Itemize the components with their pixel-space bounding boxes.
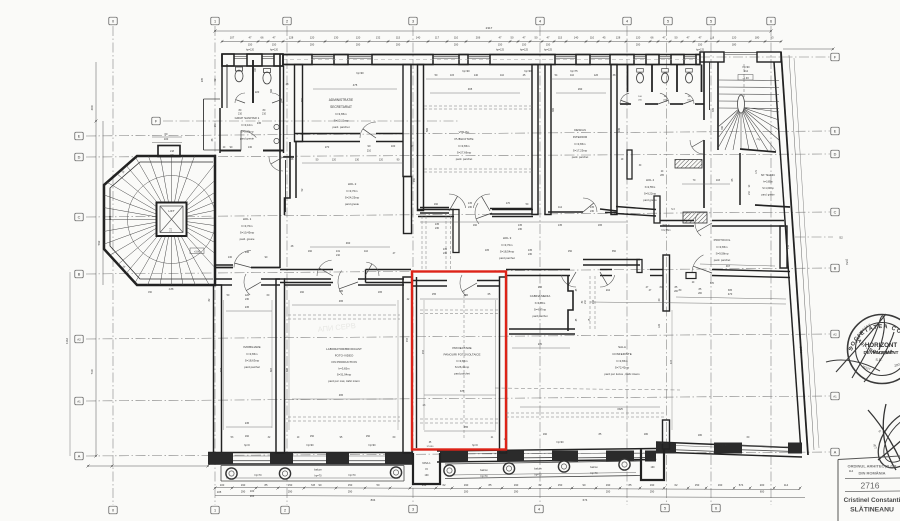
svg-text:235: 235 <box>201 77 204 82</box>
cabina media bottom wall <box>509 328 575 330</box>
svg-text:132: 132 <box>376 36 381 40</box>
svg-text:C: C <box>78 215 81 219</box>
svg-text:470: 470 <box>728 292 733 296</box>
svg-text:400: 400 <box>90 105 94 110</box>
svg-text:0: 0 <box>112 19 114 23</box>
svg-text:hp=125: hp=125 <box>496 49 505 52</box>
svg-text:112: 112 <box>558 206 563 209</box>
svg-text:A1: A1 <box>77 399 81 403</box>
svg-text:hp=70: hp=70 <box>590 472 598 475</box>
svg-text:140: 140 <box>474 74 479 77</box>
svg-text:270: 270 <box>325 145 330 149</box>
wall: bottom exterior band right section <box>656 442 802 448</box>
wall: top windows thin lines <box>312 55 334 57</box>
toilet wc fixtures top right <box>637 73 644 83</box>
svg-text:230: 230 <box>468 206 473 209</box>
hol 2 right wall x407 <box>404 177 412 234</box>
svg-text:160: 160 <box>300 291 305 294</box>
svg-text:180: 180 <box>644 433 649 436</box>
left axis letter markers <box>75 132 83 140</box>
svg-text:150: 150 <box>498 43 503 47</box>
svg-text:47: 47 <box>273 36 276 40</box>
svg-text:SLĂTINEANU: SLĂTINEANU <box>850 505 894 514</box>
svg-text:h=3,65m: h=3,65m <box>459 144 471 148</box>
svg-text:Cristinel Constantin: Cristinel Constantin <box>844 497 900 504</box>
svg-text:5: 5 <box>667 19 669 23</box>
svg-text:pard. gresie: pard. gresie <box>240 237 255 241</box>
svg-text:465: 465 <box>339 300 344 303</box>
title block frame <box>838 456 900 460</box>
nisa 1 box right <box>641 449 664 480</box>
svg-text:S=31,94mp: S=31,94mp <box>337 373 352 377</box>
grup sanitar stall partition <box>252 60 254 103</box>
svg-text:h=3,70m: h=3,70m <box>242 224 254 228</box>
svg-text:190: 190 <box>464 483 469 487</box>
svg-text:150: 150 <box>558 483 563 487</box>
svg-text:210: 210 <box>262 113 267 116</box>
stair tower radial treads <box>172 220 210 286</box>
svg-text:135: 135 <box>558 224 563 227</box>
svg-text:+1.93: +1.93 <box>742 77 749 80</box>
svg-text:ORDINUL ARHITECȚILOR: ORDINUL ARHITECȚILOR <box>848 464 897 469</box>
svg-text:62: 62 <box>539 483 542 487</box>
svg-text:165: 165 <box>598 224 603 227</box>
design interior left wall <box>545 65 551 215</box>
svg-text:728: 728 <box>311 484 316 487</box>
hol 1 bottom wall <box>215 267 233 269</box>
svg-text:66: 66 <box>261 36 264 40</box>
tower top landing box <box>158 146 180 157</box>
grup sanitar bottom wall and door <box>220 150 241 152</box>
svg-text:230: 230 <box>443 252 448 255</box>
wall: left exterior of lower-left block <box>214 285 222 456</box>
svg-text:hp=120: hp=120 <box>270 49 279 52</box>
stair center dashed walk line <box>743 64 745 100</box>
interior vertical dim lines lower rooms <box>223 300 225 430</box>
svg-text:170: 170 <box>506 202 511 205</box>
svg-text:160: 160 <box>718 483 723 487</box>
laborator dashed ceiling bands <box>288 314 400 316</box>
red marking rectangle <box>412 272 506 450</box>
sp tehnic room walls <box>739 153 741 205</box>
svg-text:47: 47 <box>523 36 526 40</box>
svg-text:S2: S2 <box>839 236 843 240</box>
svg-text:150: 150 <box>522 43 527 47</box>
svg-text:190: 190 <box>650 483 655 487</box>
svg-text:pard. parchet: pard. parchet <box>714 258 731 262</box>
svg-text:h=3,65m: h=3,65m <box>339 367 351 371</box>
svg-text:290: 290 <box>514 490 519 494</box>
svg-text:370/90: 370/90 <box>427 446 434 448</box>
svg-text:100: 100 <box>164 137 169 141</box>
svg-text:150: 150 <box>248 43 253 47</box>
svg-text:390: 390 <box>552 107 555 112</box>
svg-text:155: 155 <box>432 293 437 296</box>
stair treads radial fan <box>741 107 779 112</box>
svg-text:135: 135 <box>339 290 344 293</box>
administratie right wall x405 <box>403 65 411 177</box>
top axis markers 0-6 <box>109 17 117 25</box>
svg-text:NISA 1: NISA 1 <box>422 461 431 465</box>
svg-text:h=3,65m: h=3,65m <box>335 112 347 116</box>
stair top right left wall <box>717 62 719 150</box>
svg-text:110: 110 <box>170 227 173 231</box>
svg-text:804: 804 <box>371 498 376 502</box>
svg-text:+3.80: +3.80 <box>194 250 201 253</box>
svg-text:160: 160 <box>245 435 250 438</box>
svg-text:hp=90: hp=90 <box>462 69 470 73</box>
administratie bottom wall with door <box>294 133 360 135</box>
svg-text:230: 230 <box>590 210 595 213</box>
svg-text:130: 130 <box>248 146 253 149</box>
laborator top wall with door <box>284 278 331 280</box>
svg-text:110: 110 <box>570 74 575 77</box>
svg-text:160: 160 <box>308 250 313 253</box>
svg-text:140: 140 <box>416 36 421 40</box>
svg-text:667: 667 <box>270 367 273 372</box>
toilet block lower wall with doors <box>620 103 631 105</box>
svg-text:h=3,85m: h=3,85m <box>535 301 546 305</box>
svg-text:128: 128 <box>616 36 621 40</box>
svg-text:600: 600 <box>760 490 765 494</box>
svg-text:465: 465 <box>468 87 473 91</box>
svg-text:592: 592 <box>97 240 101 245</box>
design interior bottom wall <box>548 211 583 213</box>
wall: bottom exterior band mid section <box>437 449 656 452</box>
svg-text:balcon: balcon <box>590 465 598 469</box>
svg-text:126: 126 <box>594 74 599 77</box>
svg-text:4: 4 <box>538 507 540 511</box>
svg-text:350: 350 <box>612 250 617 253</box>
stair tower inner winding line <box>128 176 216 264</box>
svg-text:135: 135 <box>528 249 533 252</box>
svg-text:0: 0 <box>112 508 114 512</box>
protocol right wall <box>780 226 787 268</box>
svg-text:50: 50 <box>377 483 380 487</box>
svg-text:S=9,58mp: S=9,58mp <box>716 252 729 256</box>
svg-text:212: 212 <box>744 70 749 73</box>
svg-text:D: D <box>78 155 81 159</box>
visual publicitate left wall <box>418 65 424 211</box>
balcony right columns <box>444 465 455 476</box>
svg-text:C: C <box>834 210 837 214</box>
svg-text:290: 290 <box>241 490 246 494</box>
title block rule 2 <box>845 490 900 493</box>
svg-text:hp=70: hp=70 <box>254 474 262 477</box>
bottom left small dimension line <box>88 465 208 467</box>
svg-text:135: 135 <box>518 224 523 227</box>
wall between corridor and administratie x299 <box>295 65 303 142</box>
svg-text:h=3,65m: h=3,65m <box>575 142 587 146</box>
svg-text:114: 114 <box>784 483 789 487</box>
wall: bottom exterior band left section <box>208 452 413 454</box>
svg-text:balcon: balcon <box>534 467 542 471</box>
svg-text:150: 150 <box>272 43 277 47</box>
stair treads horizontal flight full width <box>718 79 779 81</box>
stair top right bottom wall <box>740 149 776 152</box>
svg-text:117: 117 <box>435 36 440 40</box>
top overall dimension line 2317 <box>215 30 771 32</box>
svg-text:50: 50 <box>511 36 514 40</box>
svg-text:pard gresie: pard gresie <box>345 202 359 206</box>
svg-text:VISUAL: VISUAL <box>459 130 470 134</box>
svg-text:hp=90: hp=90 <box>524 69 532 73</box>
svg-text:130: 130 <box>355 159 360 162</box>
svg-text:HOL 3: HOL 3 <box>503 236 512 240</box>
nisa 1 box left <box>413 453 440 484</box>
svg-text:290: 290 <box>348 490 353 494</box>
svg-text:h=3,70m: h=3,70m <box>502 243 514 247</box>
svg-text:180: 180 <box>755 36 760 40</box>
signature strokes over stamp <box>836 314 894 382</box>
svg-text:hp=125: hp=125 <box>696 49 705 52</box>
svg-text:2051: 2051 <box>845 259 849 266</box>
corridor lower wall right of red zone <box>506 269 570 271</box>
svg-text:200: 200 <box>636 43 641 47</box>
corridor lower wall band segments <box>280 269 333 271</box>
svg-text:h=3,65m: h=3,65m <box>717 245 729 249</box>
svg-text:120: 120 <box>356 36 361 40</box>
level marker box +3.80 <box>190 248 204 254</box>
svg-text:100: 100 <box>391 144 396 148</box>
svg-text:180: 180 <box>698 434 703 437</box>
svg-text:47: 47 <box>499 36 502 40</box>
svg-text:D: D <box>834 152 837 156</box>
svg-text:A1: A1 <box>833 394 837 398</box>
svg-text:200: 200 <box>606 490 611 494</box>
svg-text:190: 190 <box>651 466 656 469</box>
svg-text:HOL 2: HOL 2 <box>348 182 357 186</box>
svg-text:165: 165 <box>378 291 383 294</box>
svg-text:SP. TEHNIC: SP. TEHNIC <box>761 173 775 177</box>
svg-text:ADMINISTRATIE: ADMINISTRATIE <box>329 98 353 102</box>
wall: top-right raised band near stair <box>700 52 724 62</box>
svg-text:SALA: SALA <box>618 345 626 349</box>
imobiliare right wall band <box>276 279 285 453</box>
svg-text:350: 350 <box>413 177 416 182</box>
svg-text:HOL 1: HOL 1 <box>243 217 252 221</box>
svg-text:205: 205 <box>618 127 621 132</box>
visual publicitate bottom wall and double door <box>420 207 449 209</box>
vertical grid axes dash-dot <box>112 26 114 505</box>
svg-text:6: 6 <box>715 506 717 510</box>
svg-text:210: 210 <box>336 254 341 257</box>
svg-text:1: 1 <box>214 19 216 23</box>
svg-text:290: 290 <box>578 87 583 91</box>
hol 2 left wall jog <box>285 142 291 215</box>
svg-text:210: 210 <box>787 244 790 249</box>
svg-text:230: 230 <box>518 228 523 231</box>
svg-text:GRUP SANITAR 1: GRUP SANITAR 1 <box>235 116 260 120</box>
svg-text:2716: 2716 <box>861 481 880 491</box>
svg-text:130: 130 <box>334 36 339 40</box>
right slant dimension lines <box>789 55 814 450</box>
bottom dimension chain lines <box>215 488 800 490</box>
svg-text:90: 90 <box>319 483 322 487</box>
corridor lower wall left of imobiliare <box>215 264 233 266</box>
svg-text:5: 5 <box>664 506 666 510</box>
left dimension lines <box>95 62 97 456</box>
svg-text:h=3,65m: h=3,65m <box>457 359 469 363</box>
svg-text:160: 160 <box>473 224 478 227</box>
svg-text:NISA 1: NISA 1 <box>648 457 657 461</box>
svg-text:PROTOCOL: PROTOCOL <box>714 238 731 242</box>
svg-text:190: 190 <box>425 474 430 477</box>
svg-text:pard. parchet: pard. parchet <box>572 155 589 159</box>
svg-text:4.88: 4.88 <box>169 288 174 291</box>
grup sanitar left step wall face <box>203 99 205 150</box>
svg-text:218: 218 <box>170 150 175 153</box>
svg-text:135: 135 <box>590 206 595 209</box>
title block rule 1 <box>845 477 900 480</box>
svg-text:150: 150 <box>288 483 293 487</box>
corridor door into hol 1 <box>283 156 294 158</box>
svg-text:DEVELOPMENT: DEVELOPMENT <box>864 350 899 355</box>
svg-text:110: 110 <box>500 74 505 77</box>
svg-text:PUBLICITATE: PUBLICITATE <box>455 137 474 141</box>
svg-text:460: 460 <box>346 241 351 245</box>
svg-text:hp=90: hp=90 <box>720 444 728 447</box>
svg-text:140: 140 <box>574 36 579 40</box>
svg-text:LABORATOR/BRODCAST: LABORATOR/BRODCAST <box>326 347 362 351</box>
sinks on right wall <box>274 124 279 129</box>
toilet block partitions <box>627 65 629 93</box>
svg-text:131: 131 <box>336 250 341 253</box>
svg-text:S=12.11mp: S=12.11mp <box>334 119 349 123</box>
hol2-hol3 wall y213 segments <box>418 209 454 211</box>
svg-text:107: 107 <box>230 36 235 40</box>
hol2 left wall second face <box>295 142 297 198</box>
balcony left columns <box>226 468 237 479</box>
visual dashed ceiling lines <box>424 105 532 107</box>
svg-text:45: 45 <box>603 36 606 40</box>
svg-text:h=3,70m: h=3,70m <box>347 189 359 193</box>
svg-text:120: 120 <box>658 323 661 328</box>
svg-text:230: 230 <box>528 253 533 256</box>
svg-text:hp=90: hp=90 <box>368 444 376 447</box>
svg-text:E: E <box>78 134 81 138</box>
svg-text:pard. parchet: pard. parchet <box>332 125 349 129</box>
svg-text:h=2,55m: h=2,55m <box>645 185 656 189</box>
balcony left outline <box>221 465 404 467</box>
svg-text:DIN ROMÂNIA: DIN ROMÂNIA <box>858 471 885 476</box>
grup sanitar 1 outer walls <box>221 54 223 108</box>
svg-text:135: 135 <box>435 223 440 226</box>
svg-text:62: 62 <box>675 483 678 487</box>
visual publicitate right wall <box>532 65 538 215</box>
svg-text:85: 85 <box>265 483 268 487</box>
svg-text:93: 93 <box>771 36 774 40</box>
svg-text:150: 150 <box>214 122 217 127</box>
svg-text:2: 2 <box>284 508 286 512</box>
svg-text:180: 180 <box>732 43 737 47</box>
svg-text:120: 120 <box>636 36 641 40</box>
svg-text:ON PRODUCTION: ON PRODUCTION <box>331 360 357 364</box>
svg-text:pard. gresie: pard. gresie <box>761 194 775 197</box>
svg-text:hp=0: hp=0 <box>244 444 250 447</box>
svg-text:h=3,10m: h=3,10m <box>242 123 254 127</box>
svg-text:190: 190 <box>241 483 246 487</box>
svg-text:120: 120 <box>732 36 737 40</box>
svg-text:4: 4 <box>626 19 628 23</box>
svg-text:250: 250 <box>301 97 304 102</box>
svg-text:3: 3 <box>412 507 414 511</box>
svg-text:145: 145 <box>245 251 250 254</box>
svg-text:50: 50 <box>535 36 538 40</box>
faint stamp bleed watermark <box>317 321 356 334</box>
sala dashed ceiling band <box>506 412 664 414</box>
svg-text:100: 100 <box>220 483 225 487</box>
svg-text:hp=70: hp=70 <box>480 475 488 478</box>
svg-text:378: 378 <box>460 390 465 393</box>
svg-text:hp=90: hp=90 <box>306 444 314 447</box>
svg-text:62: 62 <box>443 483 446 487</box>
svg-text:457: 457 <box>406 337 409 342</box>
svg-text:hp=70: hp=70 <box>348 474 356 477</box>
svg-text:160: 160 <box>543 433 548 436</box>
svg-text:190: 190 <box>514 483 519 487</box>
svg-text:730: 730 <box>90 369 94 374</box>
svg-text:S=18,63mp: S=18,63mp <box>245 359 260 363</box>
design interior right wall <box>611 65 617 215</box>
svg-text:FOTO-VIDEO: FOTO-VIDEO <box>335 354 354 358</box>
svg-text:200: 200 <box>464 490 469 494</box>
svg-text:IMOBILIARE: IMOBILIARE <box>243 345 260 349</box>
svg-text:hp=0: hp=0 <box>472 444 478 447</box>
svg-text:1525: 1525 <box>617 408 623 411</box>
svg-text:200: 200 <box>760 483 765 487</box>
svg-text:447: 447 <box>670 359 673 364</box>
svg-text:110: 110 <box>364 250 369 253</box>
svg-text:66: 66 <box>651 36 654 40</box>
svg-text:150: 150 <box>310 435 315 438</box>
svg-text:105: 105 <box>217 490 222 494</box>
svg-text:290: 290 <box>650 490 655 494</box>
hol 1 / corridor vertical wall x282 <box>279 153 281 268</box>
svg-text:670: 670 <box>710 282 715 285</box>
svg-text:120: 120 <box>310 36 315 40</box>
svg-text:h=3,65m: h=3,65m <box>617 359 629 363</box>
svg-text:S=9,22mp: S=9,22mp <box>644 192 657 196</box>
stair newel oval <box>738 95 745 113</box>
svg-text:hp=90: hp=90 <box>356 71 364 75</box>
svg-text:228: 228 <box>108 215 112 220</box>
svg-text:118: 118 <box>710 36 715 40</box>
corridor wall right of toilets x704 <box>703 52 705 120</box>
svg-text:200: 200 <box>310 43 315 47</box>
svg-text:A2: A2 <box>833 332 837 336</box>
svg-text:50: 50 <box>675 36 678 40</box>
partial oval stamp lower right <box>868 401 900 478</box>
svg-text:B: B <box>834 266 837 270</box>
svg-text:S=17,25mp: S=17,25mp <box>573 149 588 153</box>
toilet wc right <box>263 72 271 84</box>
svg-text:3: 3 <box>412 19 414 23</box>
svg-text:LIFT: LIFT <box>168 209 174 213</box>
stair tower octagon outer wall <box>104 156 215 285</box>
svg-text:200: 200 <box>250 494 255 498</box>
svg-text:135: 135 <box>468 202 473 205</box>
svg-text:SECRETARIAT: SECRETARIAT <box>330 105 352 109</box>
svg-text:hp=90: hp=90 <box>556 441 564 444</box>
hatched duct box 2 <box>683 212 707 223</box>
grup sanitar right wall <box>279 54 281 153</box>
balcony right outline <box>445 461 640 464</box>
horizontal grid axes dash-dot <box>700 56 830 58</box>
svg-text:INTERIOR: INTERIOR <box>573 135 588 139</box>
svg-text:pard. parchet: pard. parchet <box>456 157 473 161</box>
svg-text:PANOURI FOTOVOLTAICE: PANOURI FOTOVOLTAICE <box>444 353 481 357</box>
